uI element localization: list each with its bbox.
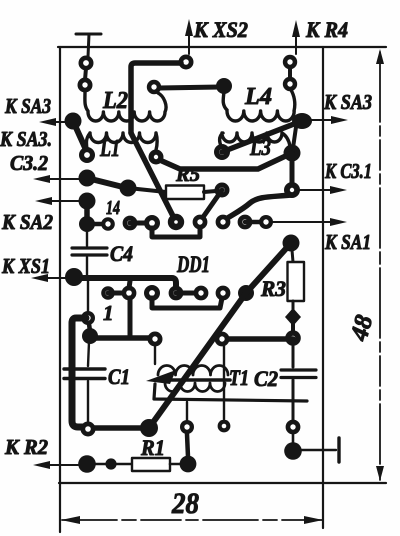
inductor L2	[85, 92, 166, 121]
junction blob R2	[78, 455, 96, 473]
svg-text:К XS1: К XS1	[1, 254, 50, 278]
wire blob to DD1 pin14 pad	[90, 222, 102, 227]
pad T1 base left	[148, 332, 163, 347]
wire trace R3 pad to T1 pad	[222, 336, 293, 342]
DD1 pad pin 11	[168, 214, 184, 230]
pad R1 top	[180, 420, 194, 434]
pad SA1	[259, 215, 273, 229]
junction blob R3 bottom	[285, 308, 301, 326]
svg-text:К SA3.: К SA3.	[0, 127, 52, 151]
DD1 pad pin 10	[193, 215, 208, 230]
pad C3.1	[284, 182, 300, 198]
svg-text:L1: L1	[99, 136, 120, 162]
svg-text:C4: C4	[110, 241, 133, 266]
wire T1 emitter lead down	[186, 402, 188, 420]
DD1 pad pin 7	[238, 285, 254, 301]
resistor R3	[288, 250, 305, 310]
junction blob SA3 right	[292, 113, 312, 129]
ground T symbol top-left	[76, 34, 101, 57]
wire R1 blob up to pad	[187, 434, 188, 457]
wire pad2 down to ground bus	[128, 298, 133, 336]
pad L4 right terminal	[283, 77, 297, 91]
wire T1 base lead down	[223, 346, 225, 419]
pad R4 upper	[283, 55, 297, 69]
wire diagonal L3 pad to SA3 right blob	[222, 122, 299, 152]
node K R4 arrow	[292, 20, 300, 54]
pad C2 bottom	[286, 420, 301, 435]
DD1 pad pin 3	[144, 285, 160, 301]
svg-text:C3.2: C3.2	[10, 151, 48, 175]
wire S-curve C3.1 pad to DD1 pad	[226, 195, 291, 219]
wire pad to blob link	[89, 324, 90, 331]
inductor L4	[223, 90, 295, 121]
svg-text:К R4: К R4	[305, 17, 348, 42]
svg-text:48: 48	[345, 312, 378, 345]
pad (hole) top-left upper	[79, 56, 94, 71]
svg-text:R1: R1	[140, 435, 165, 460]
node K C3.1 arrow	[300, 186, 347, 194]
capacitor C2	[281, 345, 316, 420]
wire link	[291, 324, 295, 331]
wire pad8 to SA1 pad	[245, 220, 266, 225]
junction blob bottom diagonal	[140, 419, 158, 437]
svg-text:C1: C1	[108, 364, 130, 389]
pad T1 base bottom	[218, 420, 231, 433]
wire supply bus to DD1 pad 4	[74, 278, 176, 288]
resistor R1	[132, 458, 170, 471]
pad T1 collector	[215, 332, 230, 347]
DD1 pad pin 14	[101, 217, 115, 231]
node K SA2 arrow	[35, 197, 80, 205]
junction blob XS1	[65, 268, 83, 286]
board outline left edge	[59, 47, 61, 532]
capacitor C4	[72, 230, 107, 276]
wire T1 frame left	[154, 384, 307, 401]
DD1 pad pin 1	[101, 286, 115, 300]
node K XS2 arrow	[185, 19, 193, 54]
node K SA1 arrow	[273, 218, 347, 226]
node K XS1 arrow	[31, 274, 68, 282]
svg-text:L4: L4	[244, 84, 272, 110]
wire link	[288, 68, 292, 78]
wire pad-to-pad link	[85, 68, 86, 80]
junction blob C4 top	[79, 216, 95, 232]
DD1 pad pin 9	[216, 215, 231, 230]
node K SA3 left arrow	[39, 118, 68, 126]
wire R2 blob to R1	[94, 463, 132, 466]
DD1 pad pin 13	[123, 216, 138, 231]
pad R3 bottom	[285, 330, 301, 346]
svg-text:T1: T1	[229, 365, 249, 390]
wire SA3 blob down to junction	[293, 127, 296, 148]
svg-text:К SA3: К SA3	[4, 94, 51, 118]
wire diagonal SA3 blob to L1 left pad	[73, 121, 87, 152]
wire bottom bus to diagonal blob	[94, 425, 146, 431]
svg-text:14: 14	[106, 197, 120, 219]
ground T symbol bottom-right	[300, 438, 339, 462]
wire trace L2 right pad to L4 left blob	[159, 87, 220, 88]
junction blob SA2	[79, 193, 96, 210]
junction blob C1 top	[82, 328, 98, 344]
pad ground bus left	[81, 311, 95, 325]
pad C1 bottom	[81, 422, 96, 437]
junction blob C3.2	[79, 170, 96, 187]
wire diagonal trace to DD1 pad 11	[131, 133, 176, 222]
wire pads 4-5 link	[176, 291, 201, 296]
junction blob R3 top	[283, 235, 300, 252]
wire link to ground blob	[292, 434, 295, 444]
node K SA3./C3.2 arrow	[33, 175, 80, 183]
svg-text:К SA1: К SA1	[324, 230, 371, 254]
wire thin from bus down to pad	[87, 281, 89, 312]
dimension line 48	[376, 49, 384, 481]
node K SA3 right arrow	[310, 116, 348, 124]
svg-text:DD1: DD1	[176, 252, 210, 277]
transformer T1 secondary winding	[165, 383, 225, 392]
pad L2 right terminal	[147, 80, 161, 94]
board outline top edge	[58, 46, 386, 48]
DD1 pad pin 5	[194, 286, 209, 301]
wire pads 13-12 link	[130, 221, 152, 226]
pad (hole) top-left lower, L2 left terminal	[78, 78, 93, 93]
transformer T1 winding lead	[154, 346, 156, 364]
wire pad2 up to bus	[129, 281, 130, 288]
junction blob net A	[284, 145, 301, 162]
wire U-trace pad3 to pad6	[152, 298, 222, 308]
junction blob ground right	[284, 442, 302, 460]
wire SA2 blob down	[84, 205, 90, 219]
DD1 pad pin 12	[144, 215, 160, 231]
svg-text:К R2: К R2	[4, 435, 48, 459]
pad R5 right terminal	[215, 183, 230, 198]
junction blob R1 right	[180, 456, 197, 473]
DD1 pad pin 6	[216, 286, 231, 301]
wire left bus corner to pad	[72, 318, 86, 427]
svg-text:R3: R3	[260, 276, 286, 301]
wire ground bus left segment	[90, 335, 155, 341]
junction blob SA3	[65, 113, 82, 130]
wire long diagonal R3 top to T1 to bottom blob	[149, 243, 291, 428]
transformer T1 primary winding	[158, 366, 228, 375]
wire junction down to C3.1 pad	[290, 153, 295, 185]
pad XS2	[179, 55, 194, 70]
svg-text:28: 28	[171, 487, 199, 520]
wire U-trace pad12 to pad10	[152, 228, 200, 237]
svg-text:L2: L2	[102, 88, 128, 114]
DD1 pad pin 4	[169, 286, 184, 301]
svg-text:К XS2: К XS2	[193, 17, 248, 42]
pad L1 right terminal	[149, 150, 164, 165]
transformer T1 core arrow	[146, 370, 230, 384]
DD1 pad pin 8	[238, 215, 253, 230]
wire trace junction to L1 right pad	[162, 153, 292, 169]
board outline bottom edge	[59, 482, 386, 484]
svg-text:К C3.1: К C3.1	[324, 159, 372, 183]
capacitor C1	[64, 342, 105, 422]
board outline right edge	[322, 47, 324, 528]
wire trace XS2 pad to left corner	[131, 63, 181, 133]
junction blob L4 left terminal	[216, 78, 232, 94]
DD1 pad pin 2	[122, 286, 137, 301]
pad L3 left terminal	[214, 144, 230, 160]
svg-text:C2: C2	[254, 366, 278, 391]
node K R2 arrow	[33, 461, 80, 469]
wire R5 pad to DD1 pad	[201, 190, 222, 220]
svg-text:К SA2: К SA2	[1, 210, 53, 234]
svg-text:К SA3: К SA3	[323, 90, 372, 114]
pad L1 left terminal	[79, 147, 95, 163]
wire diagonal to R5 junction	[87, 178, 127, 188]
inductor L1	[86, 133, 157, 150]
dimension line 28	[61, 516, 323, 524]
inductor L3	[220, 133, 290, 146]
junction blob R5 left	[120, 180, 137, 197]
junction blob R1 left	[105, 458, 116, 469]
resistor R5	[128, 186, 216, 200]
svg-text:1: 1	[103, 301, 114, 325]
wire pads 1-2 link	[108, 291, 129, 296]
wire R1 right lead	[170, 463, 183, 466]
